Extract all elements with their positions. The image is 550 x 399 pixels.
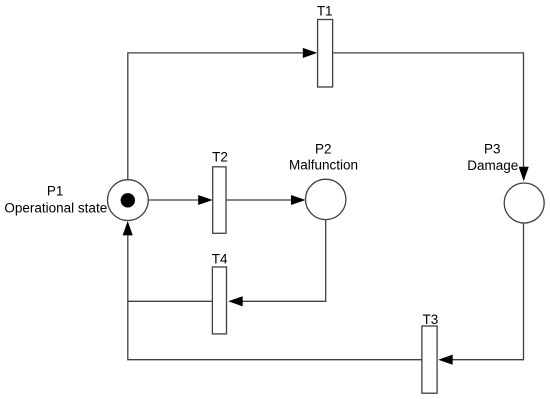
place P2: [306, 179, 346, 219]
place P3: [504, 183, 544, 223]
arrowhead into P2 left: [291, 195, 306, 205]
svg-text:Malfunction: Malfunction: [289, 158, 358, 173]
svg-text:Operational state: Operational state: [4, 201, 107, 216]
wire P1 to T2: [148, 199, 199, 201]
transition T4: [212, 267, 226, 334]
transition T2: [213, 167, 226, 234]
wire T3 to P1 (left and up): [128, 236, 422, 360]
place P1: [108, 180, 149, 221]
arrowhead into T3 right: [438, 355, 453, 365]
svg-text:T3: T3: [423, 312, 439, 327]
arrowhead into T1 left: [303, 48, 318, 58]
transition T1: [318, 20, 333, 88]
wire T4 to P1 junction: [128, 300, 213, 302]
svg-text:T2: T2: [212, 150, 228, 165]
svg-text:T4: T4: [212, 251, 228, 266]
wire P2 to T4 (down and left): [242, 220, 326, 302]
wire T2 to P2: [226, 199, 292, 201]
wire P3 to T3 (down and left): [452, 223, 524, 360]
transition T3: [422, 326, 437, 393]
arrowhead into P3 top: [519, 167, 529, 182]
arrowhead into T2 left: [198, 195, 213, 205]
token in P1: [121, 193, 135, 207]
arrowhead into T4 right: [228, 296, 243, 306]
arrowhead into P1 bottom: [123, 221, 133, 236]
wire P1 to T1 (up and right): [128, 53, 304, 181]
svg-text:Damage: Damage: [467, 158, 518, 173]
svg-text:P3: P3: [484, 142, 501, 157]
svg-text:P1: P1: [47, 184, 64, 199]
wire T1 to P3 (right and down): [333, 53, 524, 167]
svg-text:T1: T1: [317, 3, 333, 18]
svg-text:P2: P2: [315, 142, 332, 157]
